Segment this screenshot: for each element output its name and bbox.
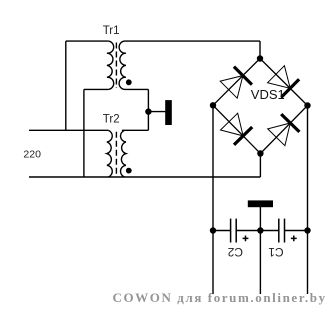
svg-text:Tr2: Tr2 [103, 114, 120, 126]
transformer Tr1 phasing dot [126, 79, 132, 85]
capacitor C2 plate right [235, 219, 237, 243]
diode D-bottomright cathode bar [281, 114, 299, 132]
wire bus segment left [213, 230, 231, 232]
transformer Tr2 core [115, 132, 117, 176]
wire riser primary right [83, 89, 85, 177]
node bridge bottom [257, 150, 263, 156]
wire Tr2 secondary top to riser [122, 129, 148, 131]
diode D-topright cathode bar [281, 79, 299, 97]
wire bridge top feed [259, 41, 261, 58]
wire Tr1 primary top [66, 40, 109, 42]
diode D-bottomright triangle [268, 123, 291, 146]
terminal bar horizontal (DC output) [248, 200, 273, 207]
wire bridge bottom to rail [259, 154, 261, 178]
capacitor C2 plus sign [243, 236, 249, 242]
diode D-bottomleft triangle [221, 113, 244, 136]
capacitor C2 plate left [230, 219, 232, 243]
svg-text:C1: C1 [268, 245, 284, 259]
wire Tr1 primary bottom [84, 88, 108, 90]
node bus right [304, 227, 310, 233]
diode bridge edge bottom-right [260, 106, 307, 154]
diode bridge edge top-right [260, 59, 308, 106]
transformer Tr2 primary winding [107, 130, 112, 177]
diode bridge edge top-left [213, 59, 260, 106]
node bridge top [257, 55, 263, 61]
diode D-topright triangle [268, 66, 291, 89]
transformer Tr2 phasing dot [126, 168, 132, 174]
wire bus segment right [284, 230, 307, 232]
wire Tr1 secondary top to bridge [125, 40, 261, 42]
wire bus segment middle [236, 230, 279, 232]
wire center tap to terminal [148, 111, 165, 113]
wire riser secondary series link [147, 89, 149, 130]
node bus middle [257, 227, 263, 233]
node center tap [145, 108, 151, 114]
node bridge right [304, 102, 310, 108]
diode D-topleft cathode bar [234, 67, 252, 85]
wire Tr1 secondary bottom [125, 88, 149, 90]
node bridge left [210, 102, 216, 108]
diode bridge edge bottom-left [213, 105, 260, 153]
svg-text:220: 220 [23, 149, 41, 161]
capacitor C1 plus sign [291, 236, 297, 242]
node bus left [210, 227, 216, 233]
wire bottom rail [29, 176, 260, 178]
wire riser primary left [65, 41, 67, 130]
diode D-topleft triangle [220, 76, 243, 99]
svg-text:C2: C2 [227, 245, 243, 259]
wire bridge right output down [307, 106, 309, 295]
transformer Tr2 secondary winding [121, 130, 126, 177]
terminal bar vertical (center tap output) [165, 100, 172, 125]
transformer Tr1 secondary winding [119, 41, 126, 89]
capacitor C1 plate left [278, 219, 280, 243]
wire 220 top rail [29, 129, 108, 131]
wire output terminal down [259, 207, 261, 294]
svg-text:VDS1: VDS1 [251, 87, 285, 102]
svg-text:Tr1: Tr1 [103, 25, 120, 37]
svg-text:COWON для forum.onliner.by: COWON для forum.onliner.by [113, 290, 327, 305]
wire bridge left output down [212, 105, 214, 294]
transformer Tr1 primary winding [107, 41, 114, 89]
transformer Tr1 core [115, 43, 117, 89]
capacitor C1 plate right [284, 219, 286, 243]
diode D-bottomleft cathode bar [234, 127, 252, 145]
